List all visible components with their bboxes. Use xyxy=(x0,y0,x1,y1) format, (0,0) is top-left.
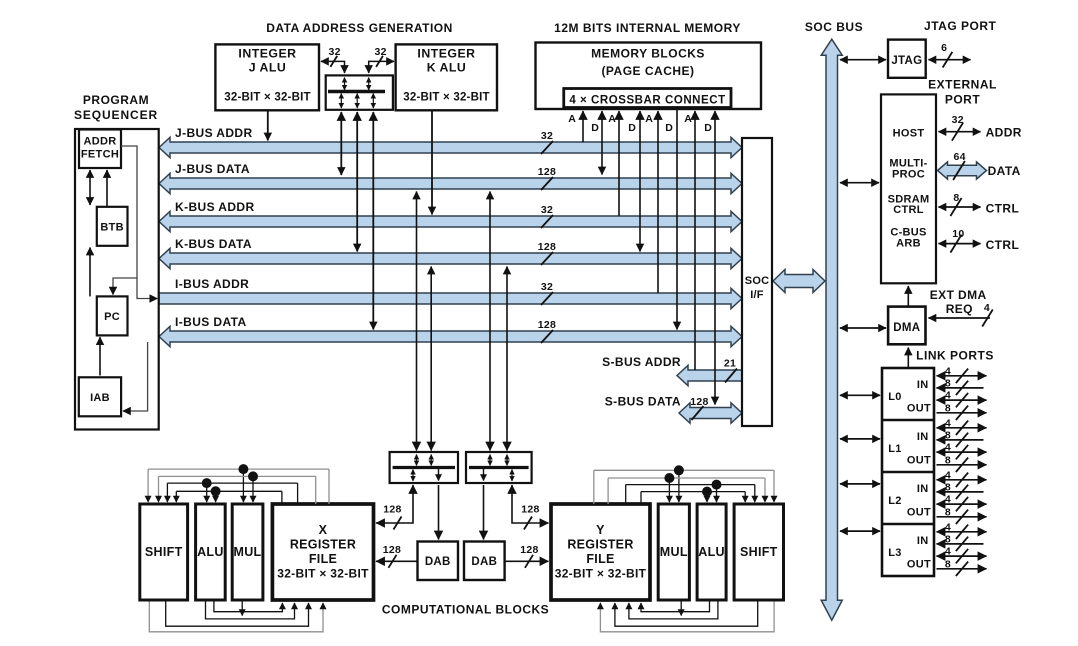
svg-text:ALU: ALU xyxy=(197,545,224,559)
svg-text:I/F: I/F xyxy=(750,289,764,301)
svg-text:FILE: FILE xyxy=(309,552,337,566)
svg-text:HOST: HOST xyxy=(893,128,925,140)
svg-text:PROC: PROC xyxy=(892,169,925,181)
svg-text:DAB: DAB xyxy=(425,556,451,568)
svg-text:128: 128 xyxy=(538,241,556,253)
svg-text:L0: L0 xyxy=(888,391,901,403)
svg-text:8: 8 xyxy=(945,558,951,570)
svg-text:32: 32 xyxy=(541,281,553,293)
svg-text:OUT: OUT xyxy=(907,507,931,519)
svg-text:8: 8 xyxy=(945,481,951,493)
svg-text:I-BUS ADDR: I-BUS ADDR xyxy=(175,277,249,291)
svg-text:32: 32 xyxy=(952,114,964,126)
svg-text:OUT: OUT xyxy=(907,403,931,415)
svg-text:K ALU: K ALU xyxy=(427,61,467,75)
svg-text:A: A xyxy=(568,113,576,125)
svg-text:128: 128 xyxy=(520,544,538,556)
svg-text:D: D xyxy=(591,122,599,134)
svg-text:ADDR: ADDR xyxy=(986,126,1022,140)
svg-text:32: 32 xyxy=(374,46,386,58)
svg-text:8: 8 xyxy=(953,192,959,204)
svg-text:L2: L2 xyxy=(888,495,901,507)
svg-text:8: 8 xyxy=(945,377,951,389)
svg-text:ARB: ARB xyxy=(896,238,921,250)
svg-text:4: 4 xyxy=(945,390,951,402)
svg-text:CTRL: CTRL xyxy=(986,202,1020,216)
svg-text:S-BUS DATA: S-BUS DATA xyxy=(605,395,681,409)
svg-text:JTAG PORT: JTAG PORT xyxy=(924,19,996,33)
svg-text:S-BUS ADDR: S-BUS ADDR xyxy=(602,355,681,369)
svg-text:IN: IN xyxy=(917,483,929,495)
svg-text:4: 4 xyxy=(945,417,951,429)
svg-text:Y: Y xyxy=(596,523,605,537)
svg-text:PROGRAM: PROGRAM xyxy=(83,93,149,107)
svg-text:128: 128 xyxy=(383,544,401,556)
svg-text:32-BIT × 32-BIT: 32-BIT × 32-BIT xyxy=(403,92,489,104)
svg-text:COMPUTATIONAL BLOCKS: COMPUTATIONAL BLOCKS xyxy=(382,603,549,617)
svg-text:128: 128 xyxy=(690,396,708,408)
svg-text:SOC BUS: SOC BUS xyxy=(805,20,863,34)
svg-text:4: 4 xyxy=(945,365,951,377)
svg-text:J-BUS ADDR: J-BUS ADDR xyxy=(175,126,253,140)
svg-text:REQ: REQ xyxy=(946,302,973,316)
svg-text:REGISTER: REGISTER xyxy=(290,538,356,552)
svg-text:X: X xyxy=(319,523,328,537)
svg-text:DATA: DATA xyxy=(988,164,1021,178)
svg-text:REGISTER: REGISTER xyxy=(567,538,633,552)
svg-text:LINK PORTS: LINK PORTS xyxy=(916,349,994,363)
svg-text:IAB: IAB xyxy=(90,392,110,404)
svg-text:ALU: ALU xyxy=(698,545,725,559)
svg-text:MUL: MUL xyxy=(660,545,688,559)
svg-text:DMA: DMA xyxy=(893,322,920,334)
svg-text:4 × CROSSBAR CONNECT: 4 × CROSSBAR CONNECT xyxy=(569,94,725,106)
svg-text:J-BUS DATA: J-BUS DATA xyxy=(175,162,250,176)
svg-text:K-BUS ADDR: K-BUS ADDR xyxy=(175,200,255,214)
svg-text:EXT DMA: EXT DMA xyxy=(930,288,987,302)
svg-text:D: D xyxy=(704,122,712,134)
svg-text:A: A xyxy=(684,113,692,125)
svg-text:12M BITS INTERNAL MEMORY: 12M BITS INTERNAL MEMORY xyxy=(554,21,741,35)
svg-text:128: 128 xyxy=(538,166,556,178)
svg-text:A: A xyxy=(645,113,653,125)
svg-text:SHIFT: SHIFT xyxy=(740,545,778,559)
svg-text:8: 8 xyxy=(945,429,951,441)
svg-text:6: 6 xyxy=(941,42,947,54)
svg-text:INTEGER: INTEGER xyxy=(238,47,296,61)
svg-text:IN: IN xyxy=(917,535,929,547)
svg-text:MUL: MUL xyxy=(234,545,262,559)
svg-text:L1: L1 xyxy=(888,443,901,455)
svg-text:D: D xyxy=(665,122,673,134)
svg-text:4: 4 xyxy=(984,302,990,314)
svg-text:CTRL: CTRL xyxy=(986,238,1020,252)
svg-text:32: 32 xyxy=(329,46,341,58)
svg-text:4: 4 xyxy=(945,442,951,454)
svg-text:4: 4 xyxy=(945,469,951,481)
svg-text:OUT: OUT xyxy=(907,559,931,571)
svg-text:32-BIT × 32-BIT: 32-BIT × 32-BIT xyxy=(277,567,369,581)
svg-text:JTAG: JTAG xyxy=(891,55,922,67)
svg-text:PORT: PORT xyxy=(945,93,981,107)
svg-text:SOC: SOC xyxy=(745,275,769,287)
svg-text:L3: L3 xyxy=(888,547,901,559)
svg-text:BTB: BTB xyxy=(100,222,124,234)
svg-text:I-BUS DATA: I-BUS DATA xyxy=(175,315,247,329)
svg-text:MEMORY BLOCKS: MEMORY BLOCKS xyxy=(591,46,705,60)
svg-text:8: 8 xyxy=(945,533,951,545)
svg-text:DATA ADDRESS GENERATION: DATA ADDRESS GENERATION xyxy=(266,21,453,35)
svg-text:8: 8 xyxy=(945,506,951,518)
svg-text:10: 10 xyxy=(952,228,964,240)
svg-text:EXTERNAL: EXTERNAL xyxy=(928,78,997,92)
svg-text:IN: IN xyxy=(917,431,929,443)
svg-text:ADDR: ADDR xyxy=(84,135,117,147)
svg-text:PC: PC xyxy=(104,311,120,323)
svg-text:FILE: FILE xyxy=(586,552,614,566)
svg-text:8: 8 xyxy=(945,454,951,466)
svg-text:128: 128 xyxy=(383,504,401,516)
svg-text:D: D xyxy=(628,122,636,134)
svg-text:4: 4 xyxy=(945,494,951,506)
svg-text:32-BIT × 32-BIT: 32-BIT × 32-BIT xyxy=(224,92,310,104)
svg-text:CTRL: CTRL xyxy=(893,204,924,216)
svg-text:A: A xyxy=(608,113,616,125)
svg-text:128: 128 xyxy=(521,504,539,516)
svg-text:32: 32 xyxy=(541,204,553,216)
svg-text:21: 21 xyxy=(724,358,736,370)
svg-text:J ALU: J ALU xyxy=(249,61,287,75)
svg-text:4: 4 xyxy=(945,546,951,558)
svg-text:64: 64 xyxy=(953,151,965,163)
svg-text:128: 128 xyxy=(538,319,556,331)
svg-text:INTEGER: INTEGER xyxy=(417,47,475,61)
svg-text:K-BUS DATA: K-BUS DATA xyxy=(175,237,252,251)
svg-text:SEQUENCER: SEQUENCER xyxy=(74,108,158,122)
svg-text:(PAGE CACHE): (PAGE CACHE) xyxy=(601,64,694,78)
svg-text:SHIFT: SHIFT xyxy=(145,545,183,559)
svg-text:8: 8 xyxy=(945,402,951,414)
svg-text:IN: IN xyxy=(917,379,929,391)
svg-text:OUT: OUT xyxy=(907,455,931,467)
svg-text:32: 32 xyxy=(541,130,553,142)
svg-text:4: 4 xyxy=(945,521,951,533)
svg-text:FETCH: FETCH xyxy=(81,148,119,160)
svg-text:DAB: DAB xyxy=(471,556,497,568)
svg-text:32-BIT × 32-BIT: 32-BIT × 32-BIT xyxy=(555,567,647,581)
